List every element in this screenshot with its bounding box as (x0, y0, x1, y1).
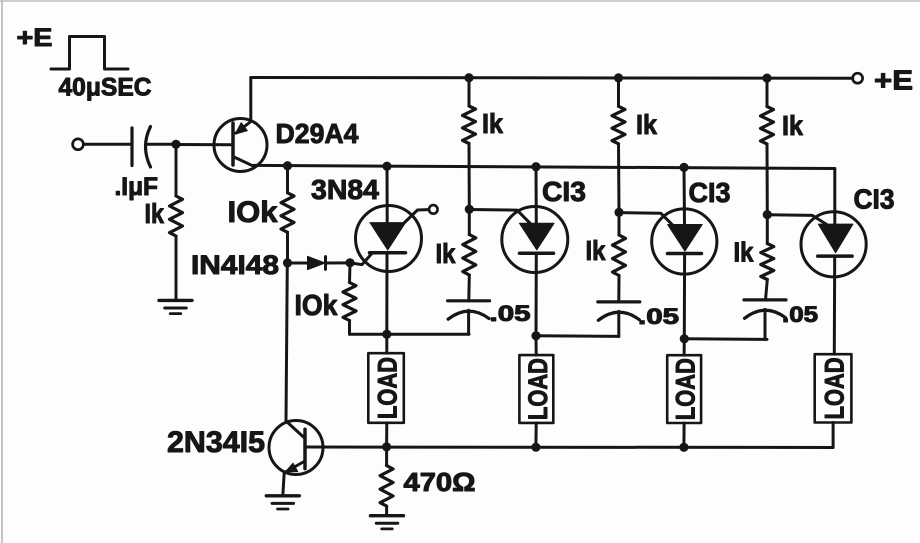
svg-text:D29A4: D29A4 (276, 118, 359, 149)
svg-text:CI3: CI3 (542, 176, 586, 207)
svg-text:2N34I5: 2N34I5 (167, 426, 265, 459)
svg-text:LOAD: LOAD (820, 357, 850, 419)
svg-text:Ik: Ik (586, 235, 606, 266)
svg-text:Ik: Ik (145, 198, 165, 229)
svg-text:3N84: 3N84 (311, 174, 379, 205)
svg-text:.05: .05 (490, 301, 531, 326)
svg-text:+E: +E (874, 65, 913, 96)
svg-text:LOAD: LOAD (373, 357, 403, 419)
svg-text:+E: +E (17, 24, 53, 52)
svg-text:LOAD: LOAD (523, 358, 553, 420)
svg-text:LOAD: LOAD (671, 358, 701, 420)
svg-text:Ik: Ik (436, 238, 456, 269)
svg-text:.05: .05 (782, 302, 818, 327)
svg-text:CI3: CI3 (689, 177, 731, 208)
svg-text:Ik: Ik (482, 108, 503, 139)
svg-text:IN4I48: IN4I48 (191, 250, 279, 280)
svg-text:.IμF: .IμF (115, 173, 159, 201)
svg-text:40μSEC: 40μSEC (59, 74, 152, 102)
svg-text:Ik: Ik (636, 109, 657, 140)
svg-text:Ik: Ik (782, 110, 803, 141)
svg-text:CI3: CI3 (854, 184, 895, 215)
svg-text:IOk: IOk (228, 196, 278, 229)
svg-text:.05: .05 (638, 304, 679, 329)
svg-text:IOk: IOk (295, 290, 339, 322)
svg-text:470Ω: 470Ω (404, 467, 476, 497)
svg-text:Ik: Ik (734, 237, 754, 268)
